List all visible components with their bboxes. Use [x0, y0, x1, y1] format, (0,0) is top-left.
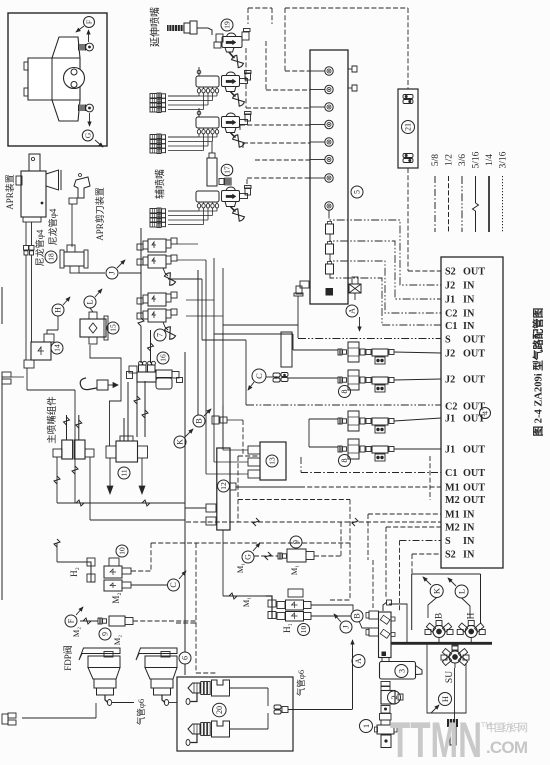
svg-text:H: H: [54, 307, 63, 313]
svg-text:M₁: M₁: [235, 563, 245, 574]
svg-text:.COM: .COM: [486, 738, 528, 757]
svg-text:APR装置: APR装置: [4, 174, 15, 210]
svg-text:2: 2: [389, 695, 399, 699]
svg-text:尼龙管φ4: 尼龙管φ4: [47, 208, 58, 245]
svg-text:C1OUT: C1OUT: [445, 468, 485, 479]
svg-text:J2OUT: J2OUT: [445, 375, 485, 386]
svg-text:8: 8: [340, 390, 349, 394]
svg-text:气管φ6: 气管φ6: [136, 699, 146, 725]
svg-text:S2OUT: S2OUT: [445, 267, 485, 278]
svg-text:延伸喷嘴: 延伸喷嘴: [149, 7, 161, 47]
svg-text:M₂: M₂: [71, 627, 81, 638]
svg-text:10: 10: [118, 547, 127, 555]
svg-text:辅喷嘴: 辅喷嘴: [153, 169, 166, 199]
svg-text:FDP阀: FDP阀: [63, 645, 73, 671]
svg-text:J1OUT: J1OUT: [445, 445, 485, 456]
svg-text:B: B: [435, 613, 445, 619]
svg-text:气管φ6: 气管φ6: [296, 670, 306, 696]
svg-text:B: B: [195, 418, 204, 423]
svg-text:C2OUT: C2OUT: [445, 402, 485, 413]
svg-text:M₁: M₁: [241, 597, 251, 608]
svg-text:11: 11: [120, 469, 129, 476]
svg-text:3/16: 3/16: [499, 151, 509, 168]
svg-text:4: 4: [481, 411, 490, 415]
svg-text:15: 15: [109, 324, 118, 332]
svg-text:L: L: [86, 299, 95, 304]
svg-text:J: J: [108, 271, 117, 274]
svg-text:F: F: [85, 20, 94, 24]
svg-text:K: K: [432, 587, 442, 594]
svg-text:M2OUT: M2OUT: [445, 495, 485, 506]
svg-text:5: 5: [353, 190, 362, 194]
svg-text:M₂: M₂: [111, 592, 121, 603]
svg-text:9: 9: [101, 632, 110, 636]
svg-text:10: 10: [299, 626, 308, 634]
svg-text:19: 19: [223, 21, 232, 29]
svg-text:C: C: [169, 582, 178, 587]
svg-text:A: A: [354, 658, 363, 664]
svg-text:5/8: 5/8: [431, 154, 441, 166]
svg-text:14: 14: [53, 344, 62, 352]
svg-text:中国纺织网: 中国纺织网: [486, 721, 528, 734]
svg-text:M₂: M₂: [112, 635, 122, 646]
svg-text:TTMN: TTMN: [390, 712, 482, 765]
svg-text:K: K: [176, 439, 185, 445]
svg-text:20: 20: [215, 706, 224, 714]
svg-text:B: B: [353, 613, 362, 618]
svg-text:12: 12: [219, 482, 228, 490]
svg-text:H₂: H₂: [69, 567, 79, 577]
svg-text:9: 9: [292, 540, 301, 544]
svg-text:13: 13: [268, 457, 277, 465]
svg-text:1/2: 1/2: [445, 154, 455, 166]
svg-text:7: 7: [156, 333, 165, 337]
svg-text:H₁: H₁: [282, 623, 292, 633]
svg-text:G: G: [83, 132, 92, 138]
svg-text:G: G: [244, 554, 253, 560]
svg-text:主喷嘴组件: 主喷嘴组件: [46, 396, 58, 444]
svg-text:尼龙管φ4: 尼龙管φ4: [34, 229, 45, 266]
svg-text:6: 6: [181, 656, 190, 660]
svg-text:M₁: M₁: [289, 565, 299, 576]
svg-text:21: 21: [404, 123, 413, 131]
svg-text:8: 8: [340, 459, 349, 463]
svg-text:图 2-4 ZA209i 型气路配管图: 图 2-4 ZA209i 型气路配管图: [532, 308, 545, 437]
svg-text:H: H: [440, 696, 450, 702]
svg-text:5/16: 5/16: [472, 151, 482, 168]
svg-text:3: 3: [396, 669, 406, 673]
svg-text:A: A: [348, 308, 357, 314]
svg-text:1: 1: [361, 724, 371, 728]
svg-text:J: J: [342, 625, 351, 628]
svg-text:J2OUT: J2OUT: [445, 349, 485, 360]
svg-text:C: C: [254, 373, 264, 379]
svg-text:3/6: 3/6: [458, 154, 468, 166]
svg-text:F: F: [67, 618, 76, 623]
svg-text:J1OUT: J1OUT: [445, 414, 485, 425]
svg-text:APR剪刀装置: APR剪刀装置: [94, 187, 105, 241]
svg-text:H: H: [467, 612, 477, 619]
svg-text:1/4: 1/4: [485, 154, 495, 166]
svg-text:16: 16: [159, 354, 168, 362]
svg-text:SU: SU: [445, 671, 455, 683]
svg-text:17: 17: [223, 166, 232, 174]
svg-text:18: 18: [47, 253, 56, 261]
svg-text:M1OUT: M1OUT: [445, 483, 485, 494]
svg-text:L: L: [456, 589, 466, 594]
